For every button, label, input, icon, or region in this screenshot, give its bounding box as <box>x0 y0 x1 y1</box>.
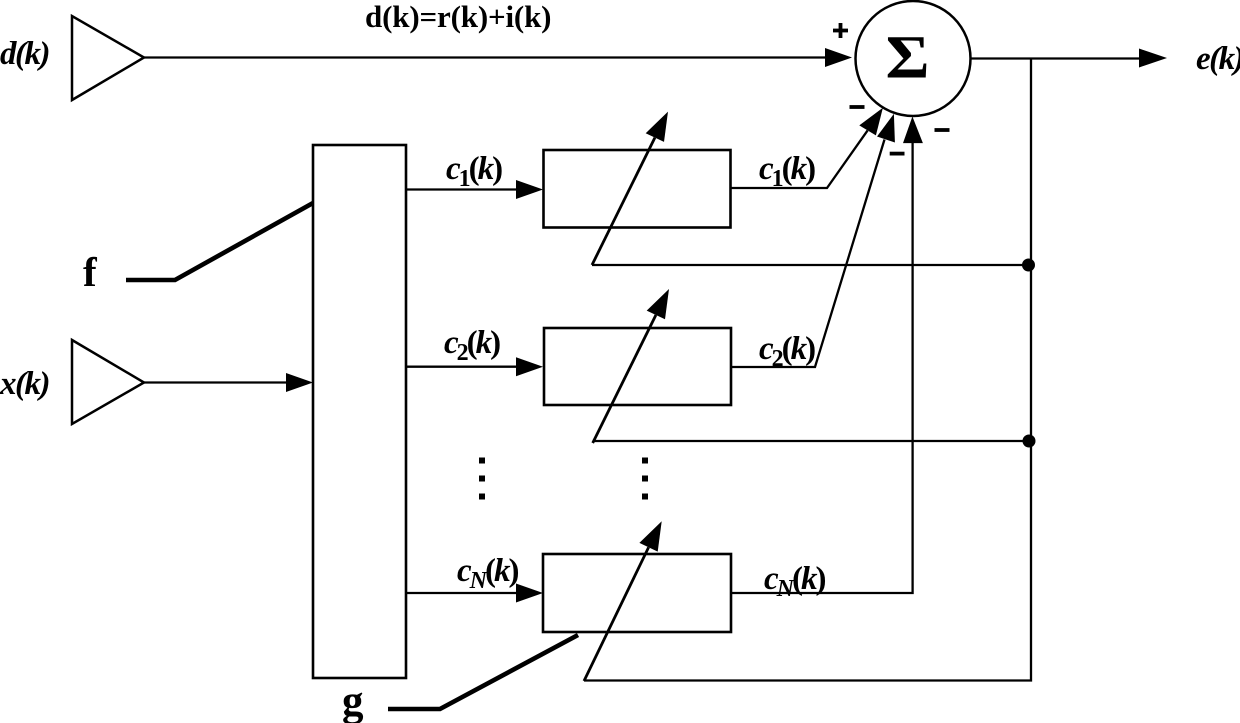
svg-text:cN(k): cN(k) <box>764 561 826 602</box>
svg-text:Σ: Σ <box>886 25 930 92</box>
svg-text:x(k): x(k) <box>0 366 49 402</box>
svg-text:d(k)=r(k)+i(k): d(k)=r(k)+i(k) <box>365 0 551 34</box>
svg-text:g: g <box>342 678 364 723</box>
svg-text:c1(k): c1(k) <box>759 151 815 192</box>
svg-text:d(k): d(k) <box>0 36 49 72</box>
svg-text:f: f <box>83 249 98 295</box>
svg-text:c1(k): c1(k) <box>446 151 502 192</box>
svg-text:cN(k): cN(k) <box>457 553 519 594</box>
svg-text:c2(k): c2(k) <box>759 331 815 372</box>
svg-text:e(k): e(k) <box>1196 41 1240 77</box>
svg-text:c2(k): c2(k) <box>444 325 500 366</box>
